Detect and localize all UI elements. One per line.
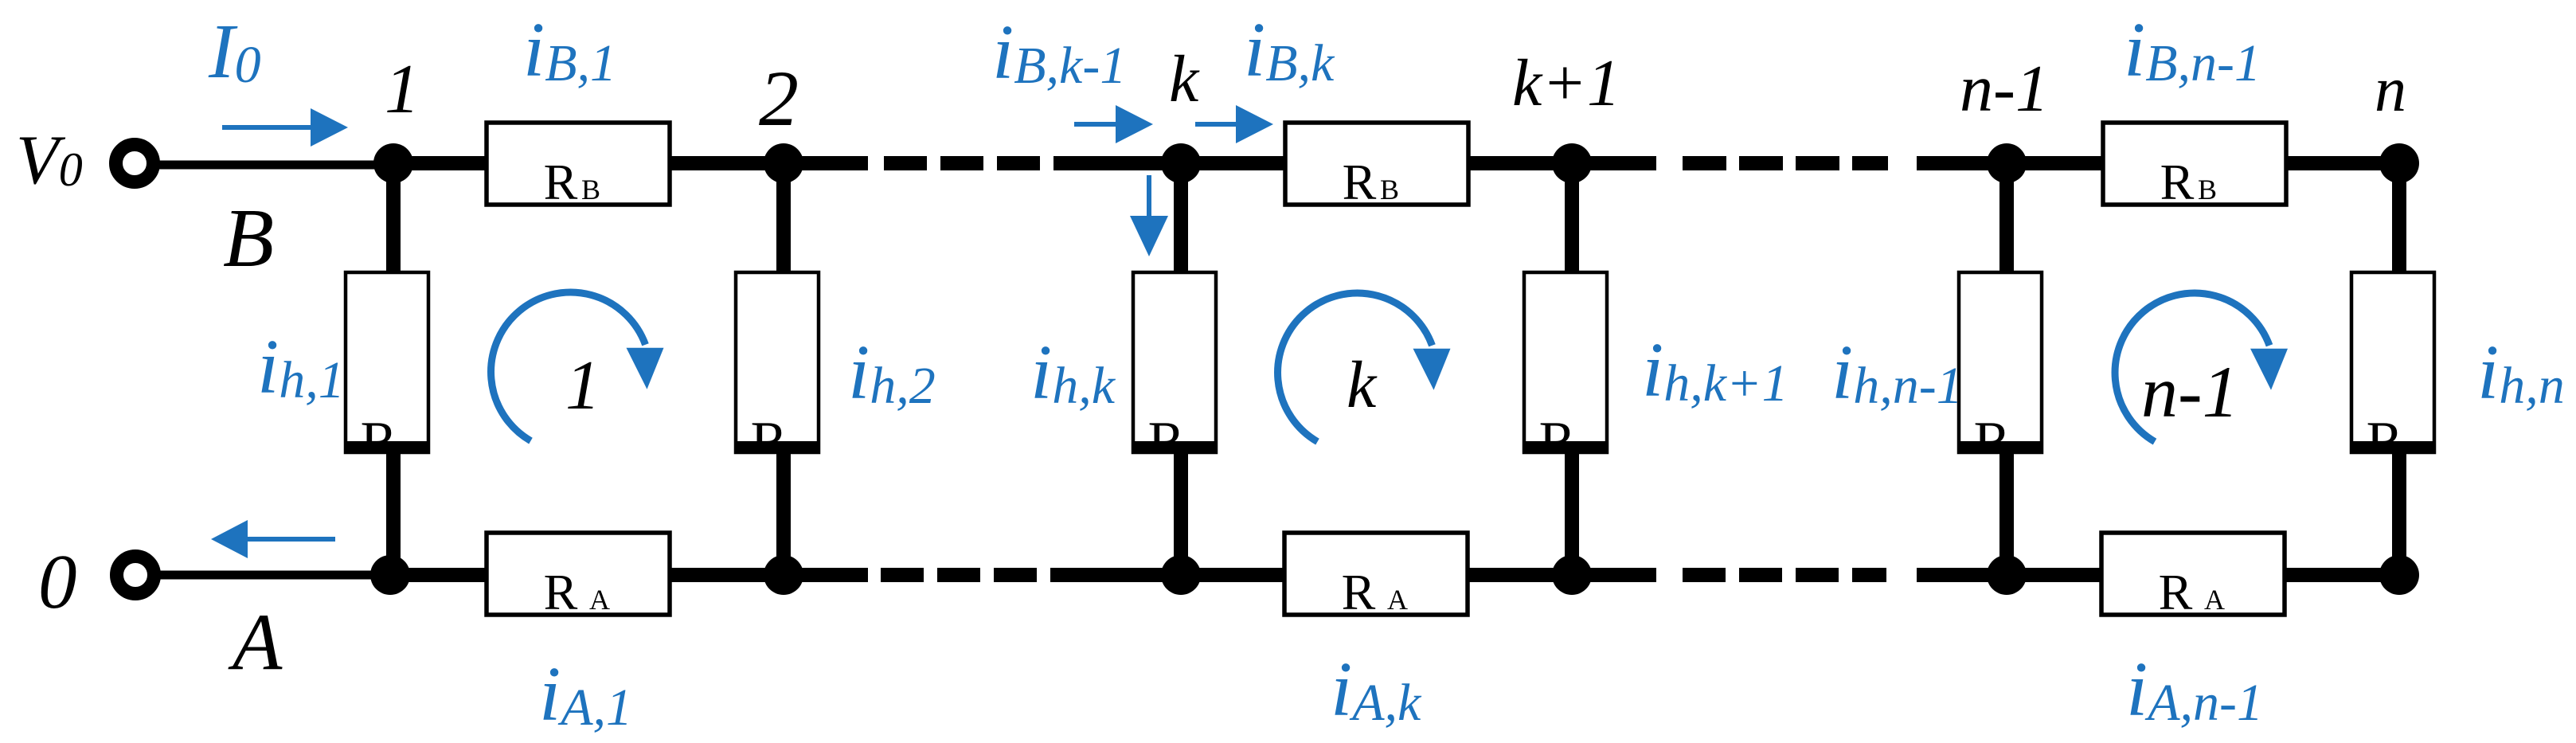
wire 0 terminal to bottom node 1 (bottom lead) (158, 571, 392, 580)
svg-text:A: A (228, 597, 283, 687)
arrow iA,1 (bottom, points left) (211, 520, 335, 558)
resistor Rh column 2 (shunt resistor) (734, 272, 820, 472)
wire node k+1 down to Rh box (vertical) (1565, 163, 1579, 274)
wire V0 terminal to node 1 (top lead) (157, 161, 393, 170)
svg-text:R: R (1342, 564, 1376, 620)
node 1 (top junction dot) (373, 143, 413, 183)
svg-text:2: 2 (759, 54, 799, 143)
svg-text:A: A (589, 584, 610, 616)
svg-text:A: A (1387, 584, 1408, 616)
wire RB3 to node n (top rail) (2281, 156, 2399, 170)
resistor RA2 (bottom, between nodes k and k+1) (1284, 533, 1468, 620)
wire node 1 down to Rh box (vertical) (386, 163, 401, 274)
wire Rh box down to bottom node k (vertical) (1174, 451, 1188, 575)
svg-text:B: B (1380, 174, 1399, 205)
wire node n-1 down to Rh box (vertical) (1999, 163, 2014, 274)
wire Rh box down to bottom node 1 (vertical) (386, 451, 401, 575)
loop current arrow n-1 (mesh n-1, clockwise) (2115, 293, 2288, 442)
svg-text:0: 0 (38, 539, 77, 624)
wire dashed segment bottom node k+1 to node n-1 (bottom rail) (1683, 568, 1886, 582)
svg-text:R: R (544, 154, 578, 210)
wire Rh box down to bottom node n (vertical) (2392, 451, 2406, 575)
bottom node n (junction dot) (2379, 555, 2419, 595)
arrow iB,k-1 (points right into node k) (1074, 105, 1153, 143)
terminal 0 (return port, bottom left) (117, 557, 154, 594)
svg-text:A: A (2204, 584, 2225, 616)
resistor RB1 (top, between nodes 1 and 2) (487, 123, 670, 210)
wire RA2 to bottom node k+1 and stub (bottom rail) (1465, 568, 1656, 582)
node k (top junction dot) (1161, 143, 1201, 183)
wire RB2 to node k+1 and stub (top rail) (1465, 156, 1656, 170)
resistor RB2 (top, between nodes k and k+1) (1285, 123, 1468, 210)
svg-text:k: k (1347, 348, 1378, 422)
wire node n down to Rh box (vertical) (2392, 163, 2406, 274)
svg-text:B: B (223, 191, 274, 284)
wire Rh box down to bottom node n-1 (vertical) (1999, 451, 2014, 575)
arrow iB,k (points right out of node k) (1195, 105, 1273, 143)
bottom node 1 (junction dot) (370, 555, 410, 595)
svg-text:R: R (2159, 564, 2193, 620)
arrow ih,k (points down at node k) (1130, 175, 1168, 256)
wire node 2 down to Rh box (vertical) (776, 163, 791, 274)
node n (top junction dot) (2379, 143, 2419, 183)
svg-text:B: B (581, 174, 600, 205)
node k+1 (top junction dot) (1552, 143, 1592, 183)
node 2 (top junction dot) (764, 143, 803, 183)
bottom node k (junction dot) (1161, 555, 1201, 595)
wire RA1 to bottom node 2 (bottom rail) (668, 568, 784, 582)
resistor Rh column n (shunt resistor) (2350, 272, 2436, 472)
wire node 2 stub right (top rail) (784, 156, 868, 170)
bottom node 2 (junction dot) (764, 555, 803, 595)
wire bottom node 2 stub right (bottom rail) (784, 568, 868, 582)
wire RB1 to node 2 (top rail) (668, 156, 784, 170)
resistor RA1 (bottom, between nodes 1 and 2) (487, 533, 670, 620)
svg-text:n: n (2375, 55, 2406, 125)
wire into bottom node n-1 through to RA3 (bottom rail) (1917, 568, 2104, 582)
wire bottom node 1 to RA1 (bottom rail) (390, 568, 489, 582)
svg-text:R: R (544, 564, 578, 620)
terminal V0 (input port, top left) (116, 145, 154, 182)
resistor Rh column k+1 (shunt resistor) (1523, 272, 1609, 472)
wire into node n-1 through to RB3 (top rail) (1917, 156, 2105, 170)
bottom node n-1 (junction dot) (1987, 555, 2027, 595)
svg-text:R: R (2160, 154, 2195, 210)
wire node k down to Rh box (vertical) (1174, 163, 1188, 274)
loop current arrow 1 (mesh 1, clockwise) (491, 292, 664, 441)
arrow I0 (input current, points right) (222, 108, 348, 147)
bottom node k+1 (junction dot) (1552, 555, 1592, 595)
wire dashed segment node k+1 to node n-1 (top rail) (1683, 156, 1888, 170)
node n-1 (top junction dot) (1987, 143, 2027, 183)
resistor RB3 (top, between nodes n-1 and n) (2103, 123, 2286, 210)
wire Rh box down to bottom node 2 (vertical) (776, 451, 791, 575)
resistor Rh column k (shunt resistor) (1132, 272, 1218, 472)
resistor RA3 (bottom, between nodes n-1 and n) (2101, 533, 2285, 620)
wire into bottom node k through to RA2 (bottom rail) (1085, 568, 1287, 582)
svg-text:k+1: k+1 (1512, 46, 1620, 120)
resistor Rh column 1 (shunt resistor) (344, 272, 430, 472)
svg-text:R: R (1343, 154, 1377, 210)
wire Rh box down to bottom node k+1 (vertical) (1565, 451, 1579, 575)
svg-text:1: 1 (385, 51, 420, 128)
wire node 1 to RB1 (top rail) (393, 156, 489, 170)
wire RA3 to bottom node n (bottom rail) (2281, 568, 2400, 582)
svg-text:n-1: n-1 (1960, 52, 2049, 126)
wire dashed segment node 2 to node k (top rail) (884, 156, 1088, 170)
svg-text:1: 1 (565, 347, 600, 424)
svg-text:k: k (1169, 42, 1200, 116)
wire into node k through to RB2 (top rail) (1088, 156, 1288, 170)
svg-text:n-1: n-1 (2141, 351, 2239, 432)
wire dashed segment bottom node 2 to node k (bottom rail) (881, 568, 1085, 582)
resistor Rh column n-1 (shunt resistor) (1957, 272, 2043, 472)
svg-text:B: B (2198, 174, 2217, 205)
loop current arrow k (mesh k, clockwise) (1278, 293, 1451, 442)
